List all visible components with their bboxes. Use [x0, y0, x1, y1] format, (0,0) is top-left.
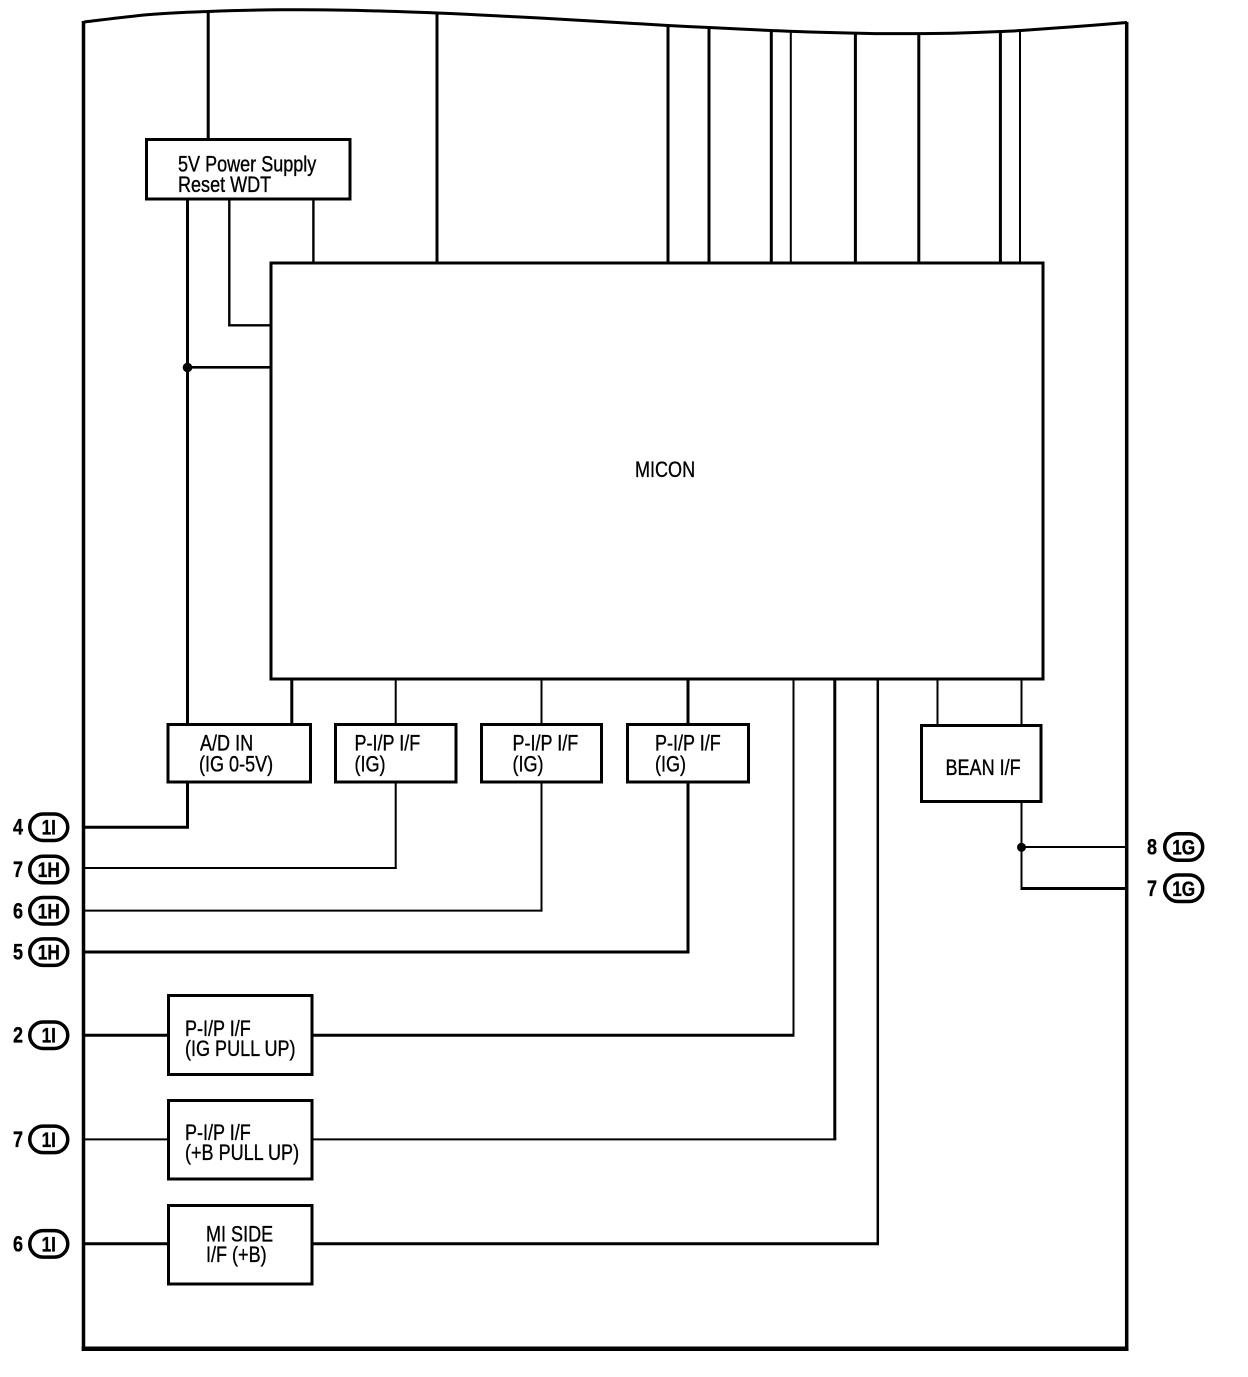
svg-text:4: 4 [13, 816, 24, 840]
wire terminal 6-1I stub from frame to box [84, 1242, 169, 1245]
svg-text:(IG): (IG) [355, 753, 386, 777]
wire P-I/P 3 bottom down (x=688) [687, 782, 690, 954]
wire from top edge to MICON top at x=791 [790, 32, 792, 264]
wire from top edge to MICON top at x=668 [667, 26, 670, 264]
wire 5V box to junction and A/D IN (x=187.5) [186, 200, 189, 724]
wire P-I/P 2 bottom down (x=541) [541, 782, 543, 912]
wire junction to right edge terminal 8-1G [1022, 846, 1127, 848]
svg-text:5: 5 [13, 941, 23, 965]
svg-text:MICON: MICON [635, 458, 695, 482]
terminal 6 (1I) [13, 1231, 68, 1258]
5V Power Supply / Reset WDT box [147, 140, 351, 200]
junction node dot at (1021.5,847.3) [1017, 843, 1026, 852]
wire terminal 5-1H horizontal [84, 951, 690, 954]
terminal 5 (1H) [13, 939, 68, 966]
terminal 4 (1I) [13, 814, 68, 841]
svg-text:1G: 1G [1172, 837, 1195, 860]
wire 5V box bottom bend to MICON left (x=229) [229, 200, 271, 325]
wire from top edge to MICON top at x=919 [917, 34, 920, 263]
svg-text:7: 7 [13, 858, 23, 882]
wire MICON bottom down to MI SIDE row (x=878) [877, 679, 880, 1244]
wire MICON bottom to A/D IN top (x=292) [290, 679, 293, 724]
wire MI SIDE box to riser x=878 [314, 1242, 880, 1245]
P-I/P I/F (IG) box 2 [482, 725, 602, 783]
wire MICON bottom to P-I/P I/F 1 top (x=396) [395, 679, 397, 724]
wire BEAN I/F bottom down (x=1021.5) [1021, 803, 1023, 890]
wire 5V box bottom to MICON top (x=313) [312, 200, 314, 263]
svg-text:7: 7 [13, 1128, 23, 1152]
svg-text:1I: 1I [42, 1234, 56, 1257]
svg-text:6: 6 [13, 1233, 23, 1257]
svg-text:1I: 1I [42, 817, 56, 840]
wire IG PULL UP box to riser x=793.5 [314, 1034, 795, 1037]
svg-text:1I: 1I [42, 1129, 56, 1152]
terminal 7 (1G) [1147, 875, 1203, 902]
wire A/D IN bottom to terminal row 4-1I (x=187.5) [186, 782, 189, 829]
wire from top edge to 5V power supply box [207, 12, 210, 140]
wire MICON bottom down to +B PULL UP row (x=835) [833, 679, 836, 1139]
svg-text:(IG PULL UP): (IG PULL UP) [185, 1037, 296, 1061]
svg-text:1H: 1H [38, 860, 60, 883]
BEAN I/F box [922, 726, 1042, 802]
wire terminal 7-1I stub from frame to box [84, 1138, 169, 1140]
wire terminal 4-1I horizontal [84, 826, 190, 829]
MI SIDE I/F (+B) box [169, 1206, 313, 1285]
frame right edge [1125, 22, 1129, 1351]
terminal 7 (1H) [13, 856, 68, 883]
frame top edge (wavy scanned border) [84, 10, 1127, 34]
A/D IN box [168, 725, 311, 783]
wire terminal 6-1H horizontal [84, 910, 543, 912]
svg-text:1H: 1H [38, 942, 60, 965]
wire from top edge to MICON top at x=1000 [999, 32, 1002, 264]
svg-text:1H: 1H [38, 901, 60, 924]
wire from top edge to MICON top at x=855 [854, 33, 857, 263]
wire MICON bottom to BEAN I/F top (x=937) [937, 679, 939, 725]
wire MICON bottom to P-I/P I/F 3 top (x=688) [687, 679, 690, 724]
frame left edge [82, 21, 86, 1351]
wire from top edge to MICON top at x=1020 [1019, 31, 1021, 264]
terminal 7 (1I) [13, 1126, 68, 1153]
svg-text:(IG): (IG) [513, 753, 544, 777]
wire to right edge terminal 7-1G [1021, 887, 1127, 890]
P-I/P I/F (+B PULL UP) box [169, 1101, 313, 1180]
svg-text:1G: 1G [1172, 878, 1195, 901]
wire from top edge to MICON top at x=709 [708, 28, 711, 264]
svg-text:8: 8 [1147, 836, 1157, 860]
svg-text:(IG 0-5V): (IG 0-5V) [199, 753, 273, 777]
terminal 2 (1I) [13, 1022, 68, 1048]
op-amp MICON block [271, 263, 1043, 679]
svg-text:I/F (+B): I/F (+B) [206, 1243, 267, 1267]
wire MICON bottom to P-I/P I/F 2 top (x=541) [541, 679, 543, 724]
svg-text:2: 2 [13, 1024, 23, 1048]
svg-text:(+B PULL UP): (+B PULL UP) [185, 1141, 299, 1165]
svg-text:7: 7 [1147, 877, 1157, 901]
wire terminal 2-1I stub from frame to box [84, 1034, 169, 1037]
P-I/P I/F (IG) box 1 [336, 725, 457, 783]
svg-text:6: 6 [13, 900, 23, 924]
wire junction to MICON left edge [188, 366, 272, 369]
wire MICON bottom to BEAN I/F top (x=1021) [1021, 679, 1023, 725]
terminal 6 (1H) [13, 898, 68, 925]
terminal 8 (1G) [1147, 834, 1203, 861]
wire P-I/P 1 bottom down (x=396) [395, 782, 397, 869]
frame bottom edge [82, 1346, 1129, 1351]
svg-text:1I: 1I [42, 1025, 56, 1048]
svg-text:(IG): (IG) [655, 753, 686, 777]
wire from top edge to MICON top at x=437 [436, 13, 439, 263]
wire MICON bottom down to IG PULL UP row (x=793.5) [793, 679, 795, 1035]
svg-text:Reset WDT: Reset WDT [178, 173, 271, 197]
svg-text:BEAN I/F: BEAN I/F [946, 756, 1021, 780]
junction node dot at (187.5,367.5) [183, 363, 193, 373]
P-I/P I/F (IG PULL UP) box [169, 996, 313, 1075]
wire +B PULL UP box to riser x=835 [314, 1138, 837, 1140]
wire from top edge to MICON top at x=771 [770, 31, 773, 264]
P-I/P I/F (IG) box 3 [628, 725, 749, 783]
wire terminal 7-1H horizontal [84, 867, 397, 869]
